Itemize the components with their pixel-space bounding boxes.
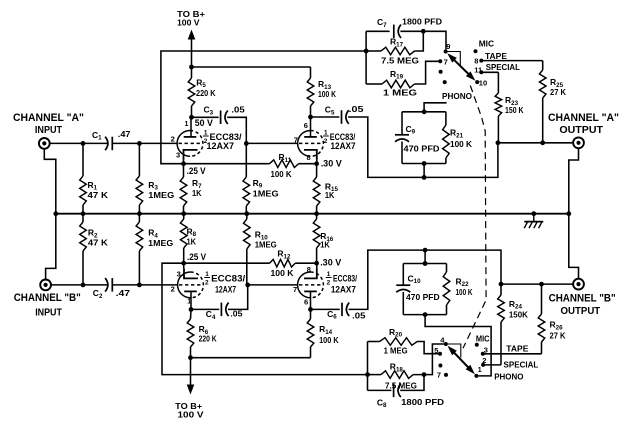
- label 150K R24: [509, 310, 529, 320]
- node B+ A: [189, 65, 194, 70]
- capacitor C1: [105, 137, 112, 151]
- label R7: [192, 178, 202, 190]
- pin 3 B1: [177, 269, 181, 278]
- pin 1 B1: [187, 299, 191, 306]
- node C10 box bottom: [423, 312, 428, 317]
- svg-text:.30 V: .30 V: [320, 258, 341, 268]
- svg-text:1 MEG: 1 MEG: [384, 345, 408, 355]
- label R5: [196, 77, 206, 89]
- node R26 top: [539, 282, 544, 287]
- svg-text:100 K: 100 K: [456, 287, 474, 297]
- label R20: [389, 327, 403, 339]
- svg-text:12AX7: 12AX7: [331, 284, 356, 294]
- node C7-R17: [421, 29, 426, 34]
- label TO B+ 100V bottom: [175, 401, 204, 420]
- capacitor C8: [394, 384, 401, 398]
- wire contact 2 to R24: [483, 364, 501, 366]
- resistor R7: [180, 164, 187, 214]
- label .05 C5: [349, 104, 364, 114]
- wire C8R18R20 left vertical: [367, 342, 369, 391]
- wire B+ rail A: [192, 66, 311, 68]
- label 150K R23: [505, 105, 524, 115]
- svg-text:2: 2: [324, 138, 328, 145]
- label 7.5 MEG R18: [385, 380, 417, 390]
- svg-text:6: 6: [304, 298, 308, 307]
- svg-text:150K: 150K: [509, 310, 529, 320]
- ground symbol: [524, 214, 543, 229]
- wire C9 box left upper: [401, 112, 403, 134]
- label 1/2 ECC83/12AX7 V2A: [323, 129, 356, 150]
- wire: [228, 285, 248, 310]
- node B-input: [81, 283, 86, 288]
- resistor R5: [188, 67, 195, 117]
- svg-text:2: 2: [171, 285, 175, 294]
- switch B contact MIC: [475, 343, 479, 347]
- label 220K R6: [199, 333, 218, 343]
- svg-text:12AX7: 12AX7: [207, 141, 235, 151]
- svg-text:MIC: MIC: [476, 334, 490, 344]
- svg-text:1800 PFD: 1800 PFD: [402, 17, 442, 27]
- wire A1 plate lead: [190, 117, 192, 137]
- svg-text:12AX7: 12AX7: [215, 284, 236, 294]
- label 2: [482, 356, 486, 365]
- label 27K R26: [550, 331, 567, 341]
- resistor R18: [368, 344, 444, 378]
- label .05 C4: [230, 308, 242, 318]
- switch A contact MIC: [474, 49, 478, 53]
- switch B contact 3 TAPE: [481, 352, 485, 356]
- svg-text:.47: .47: [116, 288, 131, 298]
- svg-text:27 K: 27 K: [550, 87, 567, 97]
- svg-text:7.5 MEG: 7.5 MEG: [385, 380, 417, 390]
- label 1MEG R19: [383, 88, 417, 98]
- label R14: [319, 324, 333, 336]
- resistor R26: [538, 284, 545, 354]
- svg-text:1: 1: [327, 271, 331, 278]
- svg-text:220 K: 220 K: [199, 333, 218, 343]
- svg-text:INPUT: INPUT: [35, 124, 63, 136]
- svg-text:.05: .05: [349, 104, 364, 114]
- resistor R14: [307, 309, 314, 357]
- label 1800 PFD C7: [402, 17, 442, 27]
- wire feedback A: [161, 51, 368, 164]
- tube V1A half ECC83/12AX7: [177, 131, 203, 160]
- label MIC A: [479, 38, 494, 48]
- label 11: [474, 65, 482, 74]
- wire A2 cathode lead: [316, 160, 318, 164]
- node B2 plate: [308, 307, 313, 312]
- wire C9 box top: [402, 111, 446, 113]
- wire jack B ground branch: [46, 214, 56, 280]
- label 100K R22: [456, 287, 474, 297]
- wire B2 cathode lead: [316, 263, 318, 268]
- label MIC B: [476, 334, 490, 344]
- node A2 plate: [308, 115, 313, 120]
- capacitor C9: [395, 135, 409, 142]
- wire C5 to output node: [348, 117, 498, 177]
- wire C10 box tap: [424, 250, 426, 263]
- wire B1 plate lead: [190, 291, 192, 309]
- svg-text:12AX7: 12AX7: [331, 141, 356, 151]
- label 7 switch A: [444, 57, 448, 66]
- svg-text:1MEG: 1MEG: [253, 188, 279, 198]
- label SPECIAL A: [486, 62, 520, 72]
- switch B contact 5: [438, 352, 442, 356]
- pin 1: [185, 121, 189, 128]
- node C9 box top: [422, 109, 427, 114]
- label C4: [206, 309, 216, 321]
- svg-text:TAPE: TAPE: [506, 344, 528, 354]
- node R25 bottom: [540, 140, 545, 145]
- switch B contact 7: [444, 373, 448, 377]
- channel A output jack: [573, 137, 584, 148]
- svg-text:1K: 1K: [192, 188, 202, 198]
- svg-text:150 K: 150 K: [505, 105, 524, 115]
- label TAPE B: [506, 344, 528, 354]
- svg-text:1: 1: [185, 121, 189, 128]
- pin 7: [294, 136, 298, 145]
- svg-text:CHANNEL "B": CHANNEL "B": [14, 292, 81, 304]
- svg-text:100 K: 100 K: [271, 169, 293, 179]
- svg-text:.05: .05: [231, 105, 245, 115]
- pin 8: [307, 153, 311, 162]
- switch B wiper arm: [448, 346, 475, 374]
- svg-text:1K: 1K: [187, 237, 197, 247]
- switch B wiper bracket: [446, 344, 461, 358]
- svg-text:3: 3: [176, 150, 180, 159]
- wire C7 row: [366, 30, 390, 32]
- node A2 grid: [244, 141, 249, 146]
- pin 2 B1: [171, 285, 175, 294]
- capacitor C10: [396, 285, 410, 292]
- label C10: [408, 273, 422, 285]
- svg-text:8: 8: [307, 265, 311, 274]
- wire C6 to output node: [349, 250, 501, 309]
- svg-text:27 K: 27 K: [550, 331, 567, 341]
- B+ arrow top: [188, 30, 196, 68]
- svg-text:CHANNEL "A": CHANNEL "A": [13, 112, 84, 124]
- label 1/2 ECC83/12AX7 V2A-B: [204, 271, 246, 294]
- wire C10 box bottom: [403, 314, 446, 316]
- label R9: [253, 178, 263, 190]
- svg-text:50 V: 50 V: [195, 118, 213, 128]
- label C6: [327, 309, 337, 321]
- svg-text:7: 7: [294, 136, 298, 145]
- svg-text:OUTPUT: OUTPUT: [559, 124, 603, 136]
- wire C8 row: [368, 389, 392, 391]
- svg-text:.25 V: .25 V: [187, 252, 206, 262]
- wire: [311, 116, 340, 118]
- label R12: [277, 249, 291, 261]
- svg-text:1: 1: [324, 129, 328, 136]
- svg-text:2: 2: [205, 280, 209, 287]
- svg-text:ECC83/: ECC83/: [333, 273, 357, 283]
- label 470 PFD C10: [406, 292, 440, 302]
- wire contact 3 to R26: [483, 353, 542, 355]
- svg-text:3: 3: [177, 269, 181, 278]
- label R10: [255, 230, 269, 242]
- capacitor C3: [221, 111, 228, 125]
- label .05 C3: [231, 105, 245, 115]
- resistor R1: [80, 143, 87, 213]
- resistor R11: [184, 160, 317, 168]
- wire B2 plate lead: [310, 291, 312, 309]
- switch B contact 1 PHONO: [474, 374, 478, 378]
- label C1: [92, 130, 102, 142]
- capacitor C7: [394, 25, 401, 38]
- svg-text:1 MEG: 1 MEG: [383, 88, 417, 98]
- label 100K R11: [271, 169, 293, 179]
- label 1/2 ECC83/12AX7 V?B: [326, 271, 358, 294]
- resistor R12: [184, 259, 317, 267]
- label R4: [148, 228, 158, 240]
- resistor R10: [244, 214, 251, 285]
- svg-text:470 PFD: 470 PFD: [406, 292, 440, 302]
- resistor R2: [80, 214, 87, 285]
- switch B blank contact: [438, 364, 442, 368]
- svg-text:100 V: 100 V: [177, 18, 200, 28]
- wire phono B link: [425, 315, 491, 376]
- label 1K R7: [192, 188, 202, 198]
- switch A wiper bracket: [446, 52, 461, 66]
- wire C9 box left lower: [401, 142, 403, 164]
- svg-text:1: 1: [204, 129, 208, 136]
- label .30V B: [320, 258, 341, 268]
- wire B output ground: [569, 214, 579, 279]
- label C5: [325, 105, 335, 117]
- resistor R6: [187, 309, 194, 357]
- svg-text:.05: .05: [352, 311, 366, 321]
- resistor R17: [366, 31, 423, 55]
- wire: [400, 30, 423, 32]
- wire: [192, 116, 219, 118]
- svg-text:OUTPUT: OUTPUT: [561, 305, 601, 317]
- label .47 C2: [116, 288, 131, 298]
- node B1 plate: [189, 307, 194, 312]
- wire C10 box top: [403, 263, 446, 265]
- wire: [51, 284, 107, 286]
- svg-text:7: 7: [293, 285, 297, 294]
- svg-text:8: 8: [307, 153, 311, 162]
- label .05 C6: [352, 311, 366, 321]
- capacitor C5: [342, 110, 349, 124]
- node B1 cathode: [181, 261, 186, 266]
- svg-text:47 K: 47 K: [88, 190, 109, 200]
- label R21: [450, 128, 464, 140]
- label R26: [550, 320, 564, 332]
- svg-text:1MEG: 1MEG: [255, 239, 277, 249]
- svg-text:.25 V: .25 V: [187, 166, 206, 176]
- node B2 grid: [245, 283, 250, 288]
- svg-text:CHANNEL "B": CHANNEL "B": [549, 293, 616, 305]
- node bus left: [53, 211, 58, 216]
- svg-text:1MEG: 1MEG: [148, 190, 174, 200]
- resistor R13: [307, 67, 314, 117]
- svg-text:1: 1: [205, 271, 209, 278]
- resistor R21: [443, 112, 450, 164]
- label TAPE A: [485, 51, 507, 61]
- wire contact 11 to R23: [481, 71, 498, 73]
- node C9 box bottom: [422, 161, 427, 166]
- tube V?B half ECC83/12AX7 (B2): [298, 268, 324, 297]
- pin 6: [304, 121, 308, 130]
- capacitor C4: [221, 303, 228, 317]
- svg-text:7.5 MEG: 7.5 MEG: [381, 56, 419, 66]
- wire C10 box left upper: [402, 264, 404, 285]
- resistor R25: [539, 61, 546, 143]
- label 27K R25: [550, 87, 567, 97]
- label 7 switch B: [437, 370, 441, 379]
- switch A contact 10: [475, 80, 479, 84]
- label 7.5 MEG: [381, 56, 419, 66]
- node bus R9R10: [244, 211, 249, 216]
- node C9 bottom tap: [422, 175, 427, 180]
- channel B output jack: [573, 279, 584, 290]
- switch A wiper arm: [447, 53, 475, 80]
- B+ arrow bottom: [187, 358, 195, 395]
- label 100K R14: [319, 335, 339, 345]
- node bus ground: [531, 211, 536, 216]
- svg-text:1K: 1K: [320, 240, 330, 250]
- wire: [113, 142, 178, 144]
- node B output left: [499, 282, 504, 287]
- tube V1B half ECC83/12AX7: [298, 131, 324, 160]
- wire phono A stub: [424, 103, 447, 112]
- label PHONO B: [494, 371, 524, 381]
- wire contact 8 to R25: [481, 60, 542, 62]
- pin 7 B2: [293, 285, 297, 294]
- svg-text:1MEG: 1MEG: [148, 238, 173, 248]
- label 9: [446, 42, 450, 51]
- svg-text:100 K: 100 K: [450, 139, 473, 149]
- label 3: [484, 345, 488, 354]
- svg-text:100 K: 100 K: [319, 335, 339, 345]
- svg-text:220 K: 220 K: [196, 88, 216, 98]
- switch A contact 7: [438, 59, 442, 63]
- resistor R16: [313, 214, 320, 264]
- svg-text:.30 V: .30 V: [321, 158, 342, 168]
- label CHANNEL "A" INPUT: [13, 112, 84, 136]
- svg-text:8: 8: [474, 56, 478, 65]
- wire A2 plate lead: [310, 117, 312, 137]
- label 1 switch B: [478, 367, 482, 374]
- label R18: [390, 362, 404, 374]
- resistor R23: [495, 72, 502, 143]
- label R24: [509, 299, 523, 311]
- wire C9 box bottom: [402, 163, 446, 165]
- label R25: [550, 77, 564, 89]
- label R15: [325, 181, 339, 193]
- label 1K R16: [320, 240, 330, 250]
- channel B input jack J2: [40, 280, 51, 291]
- resistor R19: [366, 61, 438, 88]
- wire A2 grid line: [246, 142, 297, 144]
- svg-text:PHONO: PHONO: [494, 371, 524, 381]
- pin 3: [176, 150, 180, 159]
- node A2 cathode: [314, 161, 319, 166]
- node bus output: [566, 211, 571, 216]
- wire C7R17R19 left vertical: [365, 31, 367, 84]
- label CHANNEL "B" OUTPUT: [549, 293, 616, 317]
- svg-text:10: 10: [479, 78, 487, 87]
- wire B+ rail B: [191, 357, 311, 359]
- node A-input: [81, 141, 86, 146]
- switch gang dashed link: [463, 86, 486, 349]
- switch A contact 9: [444, 50, 448, 54]
- node C1-R3: [137, 141, 142, 146]
- channel A input jack J1: [39, 138, 50, 149]
- svg-text:ECC83/: ECC83/: [211, 273, 246, 283]
- wire feedback B: [162, 263, 368, 374]
- switch A contact 11 SPECIAL: [479, 70, 483, 74]
- label 10: [479, 78, 487, 87]
- label 47K R2: [88, 238, 109, 248]
- label 1MEG R10: [255, 239, 277, 249]
- wire A output line: [498, 142, 574, 144]
- label 4: [440, 335, 445, 344]
- label .47: [118, 129, 131, 139]
- wire A output ground: [569, 148, 579, 214]
- svg-text:CHANNEL "A": CHANNEL "A": [548, 112, 619, 124]
- resistor R20: [368, 338, 439, 354]
- capacitor C6: [342, 303, 349, 317]
- label 1MEG R20: [384, 345, 408, 355]
- svg-text:9: 9: [446, 42, 450, 51]
- label R1: [88, 180, 98, 192]
- wire B output line: [501, 283, 573, 285]
- label 1MEG R4: [148, 238, 173, 248]
- wire B2 grid line: [248, 284, 298, 286]
- node B2 cathode: [314, 261, 319, 266]
- label 100K R12: [271, 268, 295, 278]
- label C2: [93, 288, 103, 300]
- wire C9 box tap: [423, 164, 425, 178]
- label 1K R8: [187, 237, 197, 247]
- svg-text:1800 PFD: 1800 PFD: [401, 397, 444, 407]
- svg-text:MIC: MIC: [479, 38, 494, 48]
- wire jack A ground branch: [44, 149, 56, 214]
- wire: [113, 284, 178, 286]
- node bus R1R2: [81, 211, 86, 216]
- label TO B+ 100V top: [177, 9, 205, 28]
- svg-text:TAPE: TAPE: [485, 51, 507, 61]
- svg-text:2: 2: [171, 134, 175, 143]
- label R23: [505, 95, 519, 107]
- node bus R7R8: [181, 211, 186, 216]
- resistor R3: [136, 143, 143, 213]
- label 8: [474, 56, 478, 65]
- svg-text:5: 5: [434, 346, 438, 355]
- resistor R9: [243, 143, 250, 213]
- label 47K: [88, 190, 109, 200]
- label R19: [390, 69, 404, 81]
- wire B1 cathode lead: [183, 263, 185, 268]
- label C3: [204, 105, 214, 117]
- svg-text:7: 7: [437, 370, 441, 379]
- svg-text:1K: 1K: [325, 190, 335, 200]
- label R16: [320, 231, 334, 243]
- label R6: [199, 324, 209, 336]
- switch A contact 8 TAPE: [479, 59, 483, 63]
- label .25V B: [187, 252, 206, 262]
- label 220K: [196, 88, 216, 98]
- svg-text:7: 7: [444, 57, 448, 66]
- label R2: [88, 228, 98, 240]
- label R11: [279, 152, 292, 164]
- ground bus: [56, 213, 569, 215]
- svg-text:.47: .47: [118, 129, 131, 139]
- node bus R15R16: [314, 211, 319, 216]
